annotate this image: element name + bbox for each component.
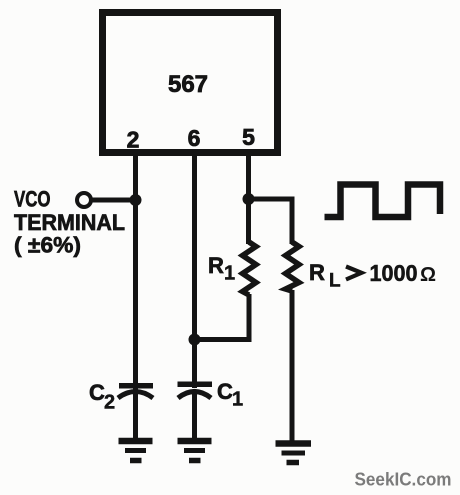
svg-text:SeekIC.com: SeekIC.com: [355, 470, 452, 490]
svg-text:2: 2: [104, 392, 115, 414]
pin 6 label: [188, 125, 201, 151]
capacitor C1 top plate: [178, 382, 213, 388]
svg-text:2: 2: [127, 127, 140, 153]
wire pin 2 vertical: [133, 152, 138, 390]
wire pin 5 vertical: [246, 152, 251, 244]
svg-text:R: R: [208, 253, 224, 278]
ground for C2: [119, 441, 153, 461]
node junction on pin 2 wire: [130, 194, 142, 206]
svg-text:R: R: [309, 260, 325, 285]
pin 2 label: [127, 127, 140, 153]
label RL > 1000 ohms: [309, 260, 436, 292]
svg-text:1: 1: [224, 263, 235, 285]
watermark SeekIC.com: [355, 470, 452, 490]
svg-text:1000: 1000: [370, 260, 418, 286]
svg-text:C: C: [217, 379, 233, 404]
ground for C1: [178, 441, 212, 461]
svg-text:C: C: [89, 380, 105, 405]
wire pin 6 vertical: [192, 152, 197, 388]
value label 567: [168, 71, 208, 98]
svg-text:5: 5: [242, 124, 255, 150]
capacitor C2 curved plate: [118, 392, 153, 399]
capacitor C2 top plate: [119, 383, 153, 389]
resistor R1: [243, 242, 257, 295]
svg-text:VCO: VCO: [14, 187, 51, 212]
pin 5 label: [242, 124, 255, 150]
output square wave symbol: [325, 185, 441, 218]
wire C2 to ground: [133, 392, 138, 441]
svg-text:567: 567: [168, 71, 208, 98]
svg-text:L: L: [329, 271, 341, 292]
label VCO TERMINAL (±6%): [14, 187, 125, 258]
svg-text:( ±6%): ( ±6%): [14, 233, 81, 258]
wire pin 5 node to RL top: [249, 199, 293, 244]
ground for RL: [276, 444, 312, 463]
svg-text:Ω: Ω: [420, 264, 436, 286]
label C2: [89, 380, 115, 414]
label R1: [208, 253, 235, 285]
wire C1 to ground: [192, 392, 197, 441]
wire R1 bottom to pin 6 node: [196, 294, 249, 340]
wire RL bottom to ground: [290, 290, 295, 441]
label C1: [217, 379, 243, 411]
wire VCO terminal to pin 2: [92, 198, 134, 203]
svg-text:1: 1: [232, 389, 243, 411]
svg-text:TERMINAL: TERMINAL: [14, 210, 125, 235]
svg-text:6: 6: [188, 125, 201, 151]
IC U1 567 tone decoder body: [103, 13, 278, 153]
VCO terminal circle: [77, 193, 91, 207]
capacitor C1 curved plate: [178, 392, 211, 399]
node junction on pin 6 wire: [189, 334, 201, 346]
node junction on pin 5 wire: [243, 193, 255, 205]
resistor RL: [286, 242, 300, 291]
